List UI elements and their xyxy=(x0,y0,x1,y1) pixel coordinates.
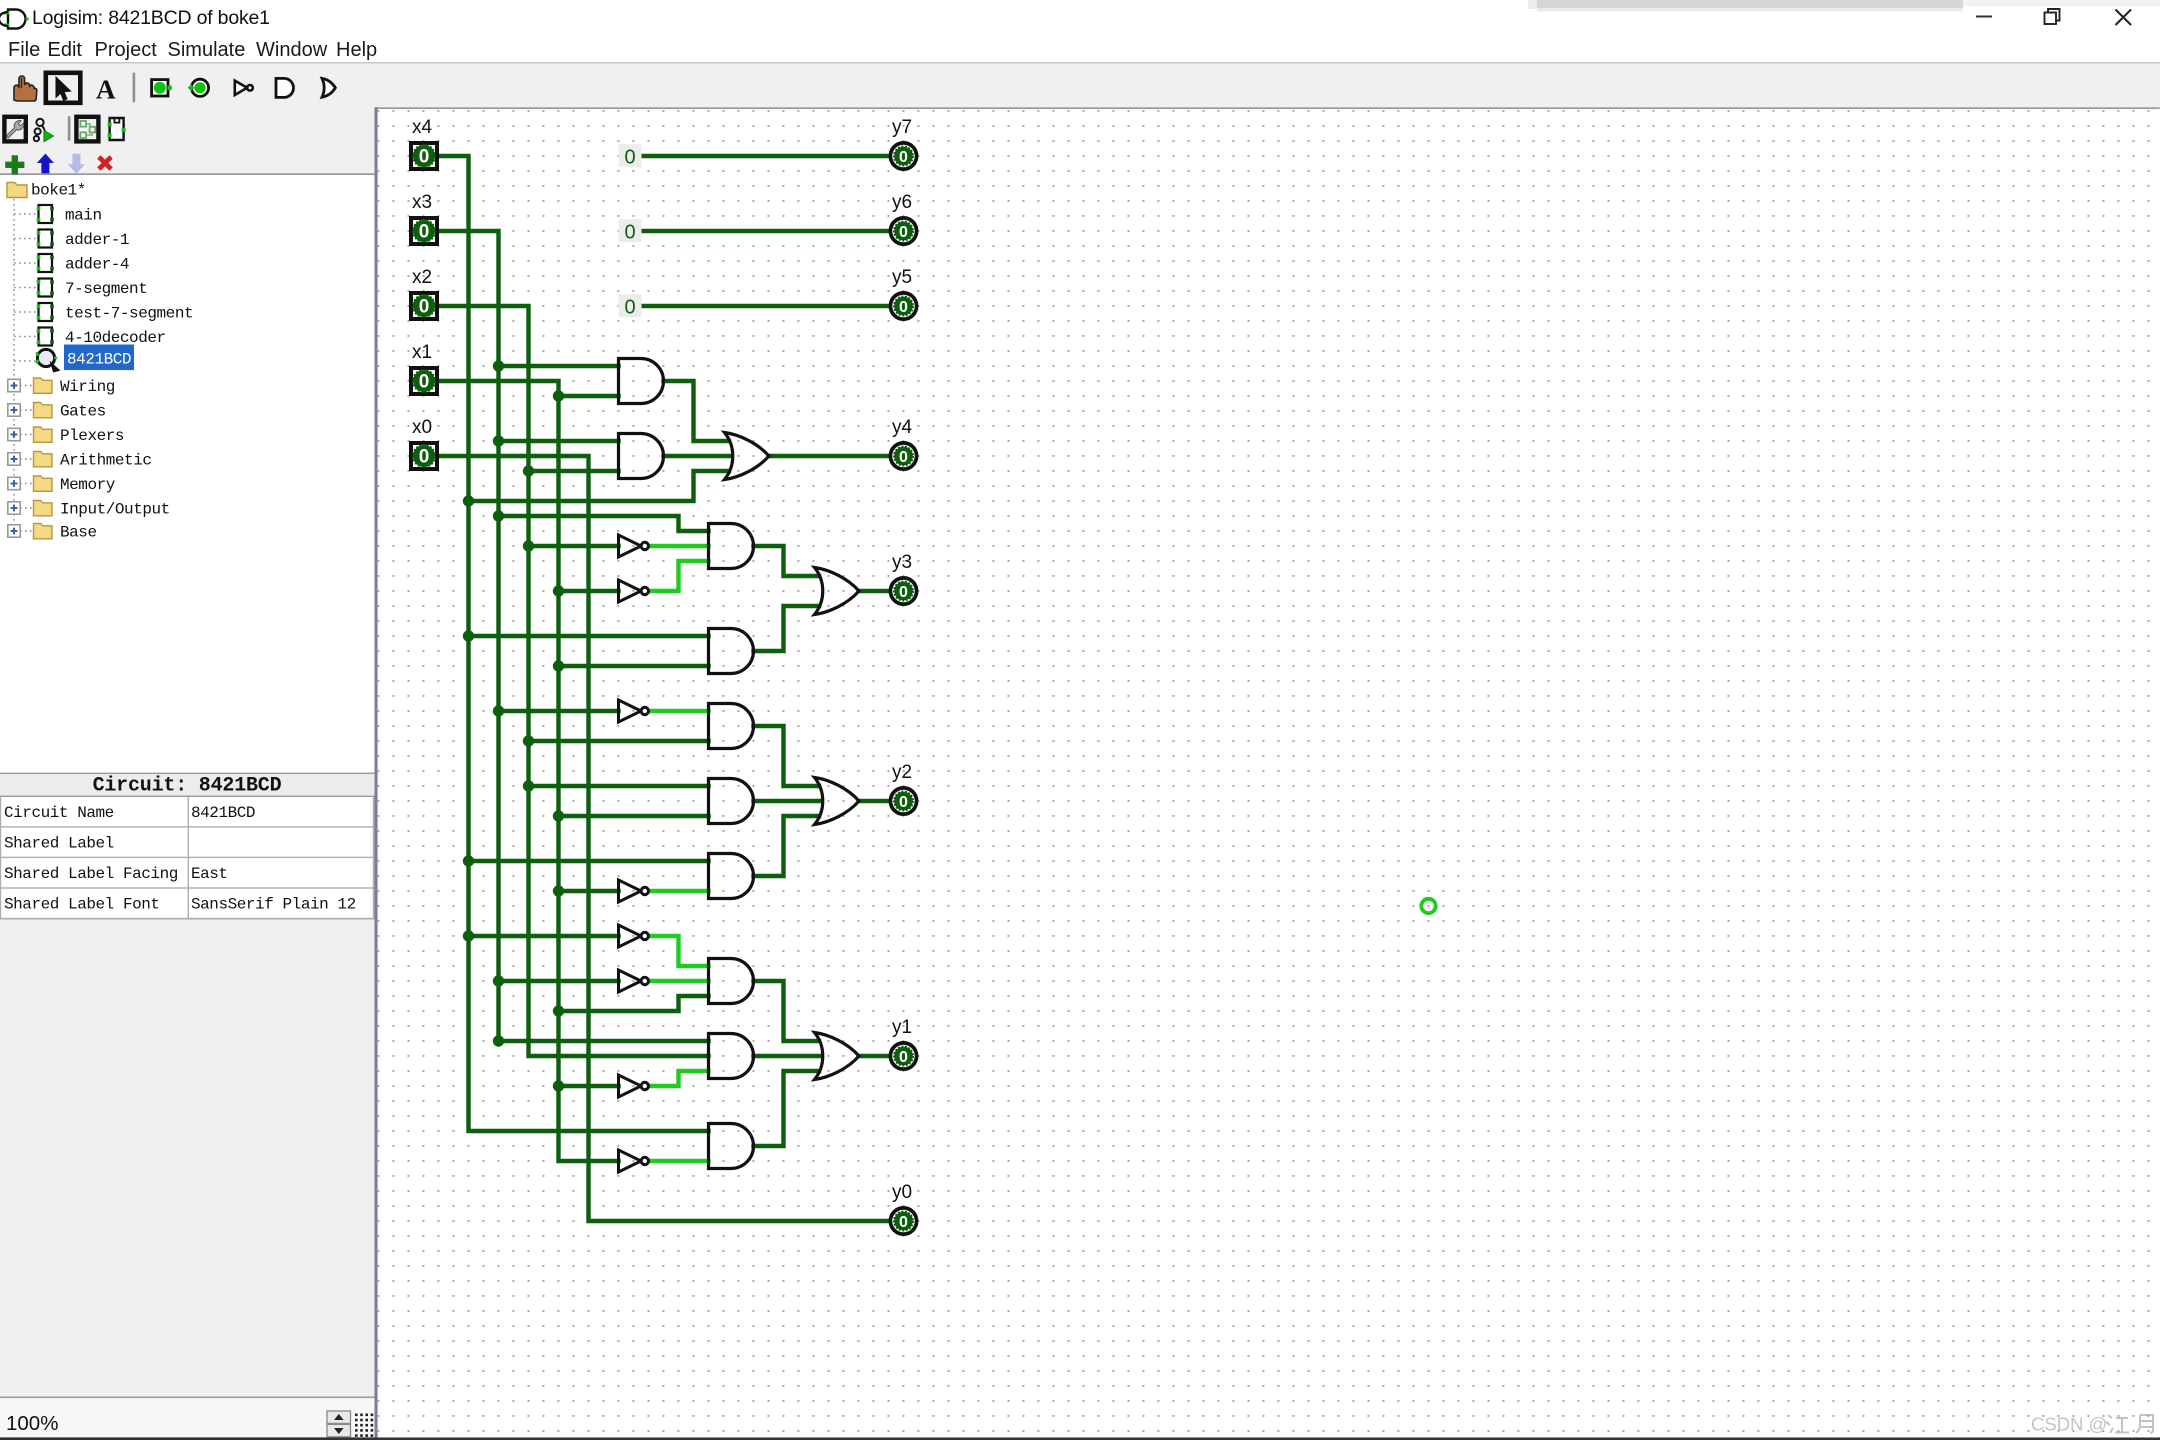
svg-text:8421BCD: 8421BCD xyxy=(191,804,255,822)
bottom zoom bar xyxy=(0,1397,375,1399)
toolbar separator xyxy=(133,73,136,103)
and gate AND1 xyxy=(619,359,664,404)
svg-text:x1: x1 xyxy=(412,342,432,363)
or gate OR1 xyxy=(725,433,770,480)
tree background xyxy=(0,175,375,773)
wire AND8 output to OR4 input A xyxy=(754,981,820,1041)
watermark CSDN xyxy=(2031,1414,2153,1435)
and gate AND6 xyxy=(709,779,754,824)
wire NOT3 output to AND5 input A (high) xyxy=(649,709,709,713)
node x2/AND5 junction xyxy=(523,735,534,746)
input pin x4 xyxy=(411,143,437,169)
svg-text:4-10decoder: 4-10decoder xyxy=(65,329,166,347)
constant K6 value 0 xyxy=(619,219,642,243)
window bottom border xyxy=(0,1437,2160,1440)
toolbar row1: output pin tool xyxy=(188,79,209,96)
not gate NOT8 xyxy=(619,1150,649,1172)
wire net x0: stub, vertical col 588, corner to y0 pin xyxy=(439,456,889,1221)
not gate NOT2 xyxy=(619,580,649,602)
wire OR1 output to pin y4 xyxy=(769,454,890,458)
tree item 4-10decoder xyxy=(37,328,54,346)
node x4/AND4 junction xyxy=(463,630,474,641)
toolbar row1: edit/select tool (selected, boxed) xyxy=(46,73,81,103)
svg-text:y1: y1 xyxy=(892,1017,912,1038)
toolbar band full width xyxy=(0,64,2160,108)
left toolbar bottom border xyxy=(0,173,376,175)
node x3/AND3 junction xyxy=(493,510,504,521)
spinner buttons xyxy=(327,1411,351,1437)
wire NOT2 output to AND3 input C (high) xyxy=(649,561,709,591)
toolbar row1: poke hand tool xyxy=(14,76,37,101)
and gate AND5 xyxy=(709,704,754,749)
tree category Input/Output xyxy=(8,502,20,514)
toolbar row1: AND gate tool xyxy=(276,78,294,97)
tree item 8421BCD selected with magnifier icon xyxy=(36,345,134,372)
not gate NOT1 xyxy=(619,535,649,557)
toolbar row2 separator xyxy=(68,116,71,140)
wire constant K6 to pin y6 xyxy=(642,229,889,233)
wire branch x2 to AND5 input B xyxy=(529,739,709,743)
svg-text:Shared Label Font: Shared Label Font xyxy=(4,896,160,914)
wire OR3 output to pin y2 xyxy=(859,799,890,803)
output pin y2 xyxy=(890,788,916,814)
output pin y1 xyxy=(890,1043,916,1069)
node x1/AND4 junction xyxy=(553,660,564,671)
svg-text:Circuit: 8421BCD: Circuit: 8421BCD xyxy=(93,775,282,798)
toolbar row1: OR gate tool xyxy=(322,78,335,97)
not gate NOT3 xyxy=(619,700,649,722)
node x3/NOT3 junction xyxy=(493,705,504,716)
svg-text:Edit: Edit xyxy=(48,39,83,61)
output pin y6 xyxy=(890,218,916,244)
output pin y3 xyxy=(890,578,916,604)
or gate OR4 xyxy=(815,1033,860,1080)
wire AND3 output to OR2 input A xyxy=(754,546,820,576)
wire AND5 output to OR3 input A xyxy=(754,726,820,786)
wire branch x1 to NOT2 input xyxy=(559,589,619,593)
tree dotted connector lines xyxy=(14,199,36,531)
and gate AND4 xyxy=(709,629,754,674)
tree item test-7-segment xyxy=(37,303,54,321)
window right border xyxy=(2157,108,2160,1440)
svg-text:y3: y3 xyxy=(892,552,912,573)
svg-text:boke1*: boke1* xyxy=(31,182,86,200)
svg-text:Shared Label: Shared Label xyxy=(4,835,114,853)
and gate AND7 xyxy=(709,854,754,899)
wire constant K5 to pin y5 xyxy=(642,304,889,308)
svg-text:SansSerif Plain 12: SansSerif Plain 12 xyxy=(191,896,356,914)
wire net x4: stub, vertical col 468, corner to AND10 input xyxy=(439,156,709,1131)
wire branch x2 to NOT1 input xyxy=(529,544,619,548)
toolbar row2: wrench (project toolbar) boxed xyxy=(4,117,25,142)
tree category Wiring xyxy=(8,379,20,391)
wire branch x3 to NOT3 input xyxy=(499,709,619,713)
svg-text:7-segment: 7-segment xyxy=(65,280,147,298)
wire NOT7 output to AND9 input C (high) xyxy=(649,1071,709,1086)
canvas top border xyxy=(376,107,2160,109)
node x4/AND7 junction xyxy=(463,855,474,866)
svg-text:A: A xyxy=(96,75,116,105)
svg-text:Shared Label Facing: Shared Label Facing xyxy=(4,865,178,883)
node x1/NOT4 junction xyxy=(553,885,564,896)
and gate AND2 xyxy=(619,434,664,479)
tree item adder-1 xyxy=(37,230,54,248)
menu bottom line xyxy=(0,62,2160,64)
wire AND1 output to OR1 input A xyxy=(664,381,730,441)
and gate AND8 xyxy=(709,959,754,1004)
svg-text:x3: x3 xyxy=(412,192,432,213)
output pin y4 xyxy=(890,443,916,469)
or gate OR3 xyxy=(815,778,860,825)
toolbar row2: schematic view icon (boxed) xyxy=(76,117,98,142)
wire OR2 output to pin y3 xyxy=(859,589,890,593)
tree item 7-segment xyxy=(37,279,54,297)
wire branch x4 to AND4 input A xyxy=(469,634,709,638)
svg-text:Project: Project xyxy=(95,39,158,61)
attribute table xyxy=(0,797,375,918)
svg-text:East: East xyxy=(191,865,228,883)
wire branch x3 to AND3 input A xyxy=(499,516,709,531)
svg-text:y6: y6 xyxy=(892,192,912,213)
wire branch x2 to AND6 input A xyxy=(529,784,709,788)
node x1/NOT2 junction xyxy=(553,585,564,596)
node x3/AND2 junction xyxy=(493,435,504,446)
wire net x2: stub, vertical col 528, corner to AND9 mid input xyxy=(439,306,709,1056)
wire AND7 output to OR3 input C xyxy=(754,816,820,876)
tree item main xyxy=(37,205,54,223)
toolbar row1: NOT gate tool xyxy=(235,81,253,95)
toolbar row2: simulate hierarchy icon xyxy=(34,119,45,141)
wire AND9 output to OR4 input B xyxy=(754,1054,822,1058)
gray filler below table xyxy=(0,920,375,1397)
svg-text:Arithmetic: Arithmetic xyxy=(60,452,152,470)
wire AND4 output to OR2 input B xyxy=(754,606,820,651)
wire NOT8 output to AND10 input B (high) xyxy=(649,1159,709,1163)
wire branch x3 to NOT6 input xyxy=(499,979,619,983)
attribute header band xyxy=(0,773,375,775)
tree category Arithmetic xyxy=(8,453,20,465)
svg-text:test-7-segment: test-7-segment xyxy=(65,305,193,323)
tree category Memory xyxy=(8,477,20,489)
wire constant K7 to pin y7 xyxy=(642,154,889,158)
svg-text:CSDN @: CSDN @ xyxy=(2031,1414,2107,1435)
svg-text:y2: y2 xyxy=(892,762,912,783)
wire branch x3 to AND2 input A xyxy=(499,439,619,443)
wire-end cursor marker xyxy=(1421,899,1435,913)
svg-text:y0: y0 xyxy=(892,1182,912,1203)
wire net x3: stub, vertical col 498 xyxy=(439,231,499,1041)
wire branch x3 to AND1 input A xyxy=(499,364,619,368)
toolbar row3: delete X red xyxy=(97,155,113,171)
toolbar row2: new circuit/doc icon xyxy=(108,118,126,140)
wire branch x1 to AND8 input C xyxy=(559,996,709,1011)
svg-text:File: File xyxy=(8,39,40,61)
tree root folder boke1 xyxy=(7,182,86,200)
svg-text:x2: x2 xyxy=(412,267,432,288)
or gate OR2 xyxy=(815,568,860,615)
node x1/NOT7 junction xyxy=(553,1080,564,1091)
tree item adder-4 xyxy=(37,254,54,272)
toolbar row1: input pin tool xyxy=(152,80,172,96)
wire branch x4 to OR1 input C xyxy=(469,471,730,501)
node x3/AND1 junction xyxy=(493,360,504,371)
toolbar row3: down arrow pale xyxy=(68,154,85,174)
wire AND6 output to OR3 input B xyxy=(754,799,822,803)
svg-text:Gates: Gates xyxy=(60,403,106,421)
svg-text:x4: x4 xyxy=(412,117,433,138)
wire AND2 output to OR1 input B xyxy=(664,454,732,458)
svg-text:x0: x0 xyxy=(412,417,432,438)
svg-text:Circuit Name: Circuit Name xyxy=(4,804,114,822)
svg-text:adder-1: adder-1 xyxy=(65,231,129,249)
node x3/NOT6 junction xyxy=(493,975,504,986)
and gate AND3 xyxy=(709,524,754,569)
constant K7 value 0 xyxy=(619,144,642,168)
window buttons xyxy=(1976,16,1992,18)
constant K5 value 0 xyxy=(619,294,642,318)
svg-text:Window: Window xyxy=(256,39,328,61)
wire branch x4 to AND7 input A xyxy=(469,859,709,863)
wire branch x1 to AND6 input B xyxy=(559,814,709,818)
not gate NOT6 xyxy=(619,970,649,992)
wire branch x2 to AND2 input B xyxy=(529,469,619,473)
svg-text:Base: Base xyxy=(60,524,97,542)
input pin x0 xyxy=(411,443,437,469)
shadow of window behind at top right xyxy=(1537,0,1963,8)
svg-text:Input/Output: Input/Output xyxy=(60,501,170,519)
wire branch x1 to AND4 input B xyxy=(559,664,709,668)
wire branch x1 to AND1 input B xyxy=(559,394,619,398)
and gate AND10 xyxy=(709,1124,754,1169)
svg-text:8421BCD: 8421BCD xyxy=(67,351,131,369)
output pin y5 xyxy=(890,293,916,319)
output pin y7 xyxy=(890,143,916,169)
input pin x1 xyxy=(411,368,437,394)
panel/canvas divider xyxy=(375,107,378,1440)
toolbar row3: up arrow blue xyxy=(37,154,54,174)
wire branch x3 to AND9 input A xyxy=(499,1039,709,1043)
svg-text:Plexers: Plexers xyxy=(60,427,124,445)
wire branch x4 to NOT5 input xyxy=(469,934,619,938)
svg-text:y4: y4 xyxy=(892,417,913,438)
tree category Plexers xyxy=(8,428,20,440)
svg-text:Help: Help xyxy=(336,39,377,61)
grid toggle icon xyxy=(355,1414,373,1437)
toolbar row3: add (+) green xyxy=(5,155,24,174)
wire NOT4 output to AND7 input B (high) xyxy=(649,889,709,893)
not gate NOT7 xyxy=(619,1075,649,1097)
input pin x2 xyxy=(411,293,437,319)
node x1/AND8 junction xyxy=(553,1005,564,1016)
node x3/AND9 junction xyxy=(493,1035,504,1046)
node x1/AND6 junction xyxy=(553,810,564,821)
node x2/AND2 junction xyxy=(523,465,534,476)
menu bar xyxy=(8,39,377,61)
not gate NOT5 xyxy=(619,925,649,947)
not gate NOT4 xyxy=(619,880,649,902)
node x2/NOT1 junction xyxy=(523,540,534,551)
wire NOT1 output to AND3 input B (high) xyxy=(649,544,709,548)
tree category Gates xyxy=(8,404,20,416)
wire NOT5 output to AND8 input A (high) xyxy=(649,936,709,966)
tree category Base xyxy=(8,525,20,537)
node x2/AND6 junction xyxy=(523,780,534,791)
svg-text:Logisim: 8421BCD of boke1: Logisim: 8421BCD of boke1 xyxy=(32,7,270,29)
and gate AND9 xyxy=(709,1034,754,1079)
wire NOT6 output to AND8 input B (high) xyxy=(649,979,709,983)
svg-text:Wiring: Wiring xyxy=(60,378,115,396)
svg-text:100%: 100% xyxy=(6,1412,58,1435)
left panel toolbar area rows 2-3 xyxy=(0,108,376,175)
svg-text:Simulate: Simulate xyxy=(168,39,246,61)
node x4/NOT5 junction xyxy=(463,930,474,941)
wire net x1: stub, vertical col 558, corner to NOT8 input xyxy=(439,381,619,1161)
wire branch x1 to NOT7 input xyxy=(559,1084,619,1088)
titlebar logisim icon xyxy=(0,10,29,29)
svg-text:main: main xyxy=(65,207,102,225)
svg-text:Memory: Memory xyxy=(60,476,116,494)
output pin y0 xyxy=(890,1208,916,1234)
wire OR4 output to pin y1 xyxy=(859,1054,890,1058)
svg-text:adder-4: adder-4 xyxy=(65,256,129,274)
node x4/OR1 junction xyxy=(463,495,474,506)
svg-text:y5: y5 xyxy=(892,267,912,288)
node x1/AND1 junction xyxy=(553,390,564,401)
wire branch x1 to NOT4 input xyxy=(559,889,619,893)
svg-text:y7: y7 xyxy=(892,117,912,138)
input pin x3 xyxy=(411,218,437,244)
wire AND10 output to OR4 input C xyxy=(754,1071,820,1146)
